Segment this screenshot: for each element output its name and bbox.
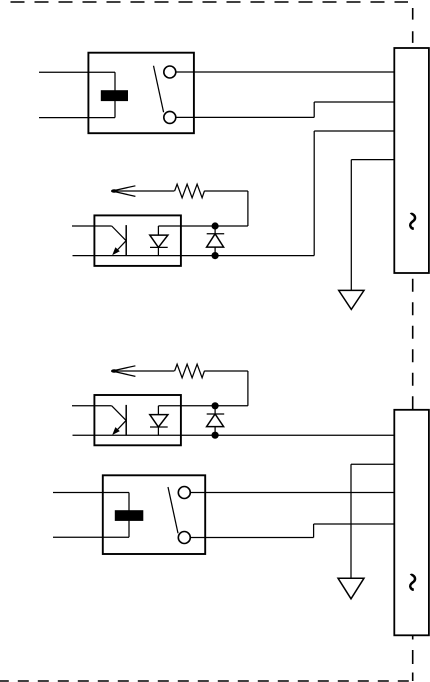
relay K2 switch arm [168, 487, 178, 533]
optocoupler U1 body [94, 215, 180, 266]
dashed enclosure top edge [11, 1, 409, 3]
transistor U1 collector lead [112, 226, 126, 241]
wire corner drop to node A [247, 191, 249, 226]
wire K2 top contact to J2 [190, 492, 394, 494]
transistor U1 base bar [125, 225, 127, 255]
transistor U2 collector lead [112, 406, 126, 421]
LED U1 triangle [150, 235, 168, 247]
wire K1 coil vertical [114, 72, 116, 117]
node B junction dot [212, 252, 219, 259]
dashed enclosure bottom edge [0, 680, 414, 682]
connector J2 body [394, 410, 429, 636]
dashed enclosure right edge upper segment [412, 8, 414, 48]
wire corner drop to node C [247, 371, 249, 406]
LED U1 anode drop [157, 226, 159, 235]
LED U2 cathode bar [150, 426, 168, 428]
LED U2 cathode drop [157, 427, 159, 435]
wire K1 coil input bottom [39, 117, 115, 119]
transistor U1 emitter arrowhead [112, 247, 120, 255]
resistor R2 [175, 364, 205, 378]
diode D2 cathode lead [214, 406, 216, 414]
LED U1 cathode bar [150, 246, 168, 248]
wire K2 coil vertical [128, 493, 130, 538]
wire K1 bottom contact to J1 [314, 101, 394, 103]
wire K2 bottom contact run [190, 537, 313, 539]
wire U2 collector stub [72, 405, 112, 407]
arrow apex thickening (upper) [111, 189, 117, 193]
relay K2 contact bottom [178, 532, 190, 544]
dashed enclosure right edge lower segment [412, 635, 414, 681]
wire arrow to resistor R1 [112, 190, 174, 192]
wire K2 bottom contact riser [313, 524, 315, 538]
diode D1 triangle [207, 234, 224, 247]
transistor U2 base bar [125, 405, 127, 435]
arrow to controller (lower) [112, 366, 135, 377]
diode D2 cathode bar [207, 413, 225, 415]
wire U2 emitter rail to J2 [73, 434, 395, 436]
wire U1 emitter rail [73, 255, 315, 257]
wire R1 to corner [204, 190, 248, 192]
ground (lower) [338, 578, 364, 599]
node C junction dot [212, 402, 219, 409]
diode D1 cathode bar [207, 233, 225, 235]
wire U2 anode from node C [158, 405, 248, 407]
wire U1 collector stub [72, 225, 112, 227]
wire U1 anode from node A [158, 225, 248, 227]
wire K1 bottom contact riser [313, 102, 315, 117]
wire K2 coil input top [53, 492, 129, 494]
transistor U1 emitter lead [114, 241, 126, 254]
optocoupler U2 body [94, 395, 180, 445]
diode D1 cathode lead [214, 226, 216, 234]
node D junction dot [212, 432, 219, 439]
wire emitter rail to J1 [314, 130, 394, 132]
diode D1 anode lead [214, 247, 216, 256]
wire K1 bottom contact run [176, 116, 314, 118]
LED U2 triangle [150, 415, 168, 427]
dashed enclosure right edge middle segment [412, 279, 414, 410]
resistor R1 [175, 184, 205, 198]
wire K2 coil input bottom [53, 536, 129, 538]
diode D2 anode lead [214, 427, 216, 436]
relay K2 coil [115, 510, 144, 521]
wire J2 to ground run [351, 463, 394, 465]
connector J2 continuation squiggle [410, 575, 415, 590]
connector J1 continuation squiggle [410, 214, 415, 229]
wire emitter rail riser [313, 131, 315, 256]
node A junction dot [212, 222, 219, 229]
wire K2 bottom contact to J2 [314, 523, 395, 525]
relay K1 body [88, 53, 193, 134]
wire ground drop (upper) [350, 160, 352, 291]
relay K2 body [103, 475, 205, 554]
wire R2 to corner [204, 370, 248, 372]
arrow apex thickening (lower) [111, 369, 117, 373]
relay K1 coil [101, 90, 128, 101]
relay K1 switch arm [154, 66, 164, 113]
relay K2 contact top [178, 487, 190, 499]
relay K1 contact bottom [164, 111, 176, 123]
wire J1 to ground run [351, 159, 394, 161]
arrow to controller (upper) [112, 186, 135, 197]
wire arrow to resistor R2 [112, 370, 174, 372]
connector J1 body [394, 48, 429, 273]
wire K1 coil input top [39, 71, 115, 73]
LED U1 cathode drop [157, 247, 159, 255]
LED U2 anode drop [157, 406, 159, 415]
transistor U2 emitter arrowhead [112, 427, 120, 435]
transistor U2 emitter lead [114, 420, 126, 433]
ground (upper) [339, 290, 364, 309]
wire K1 top contact to J1 [176, 71, 394, 73]
diode D2 triangle [207, 414, 224, 427]
wire ground drop (lower) [350, 464, 352, 578]
relay K1 contact top [164, 66, 176, 78]
